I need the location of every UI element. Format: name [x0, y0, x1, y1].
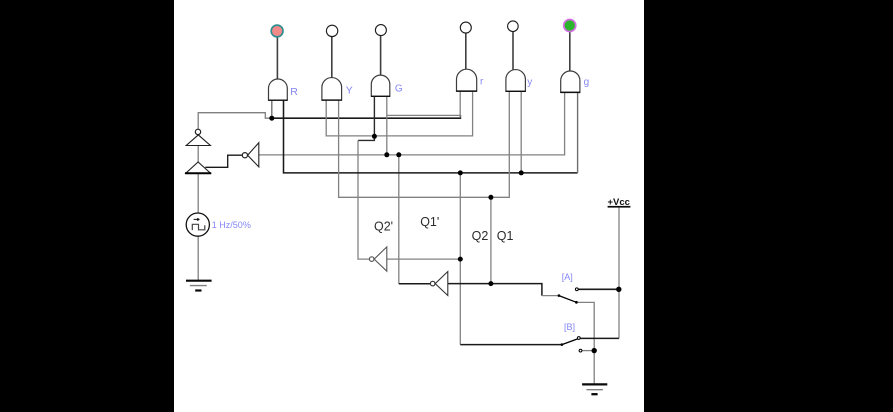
svg-text:Q1': Q1': [420, 215, 439, 229]
wire: gate r left input pin: [459, 91, 461, 117]
wire: gate G right pin cross link: [387, 114, 460, 116]
svg-text:Q2': Q2': [374, 219, 393, 233]
wire: net from gate Y left pin to gate r right pin: [326, 91, 472, 136]
AND gate R: [268, 79, 287, 100]
wire: LED R stem: [276, 37, 278, 79]
svg-text:Q2: Q2: [472, 229, 489, 243]
svg-text:Q1: Q1: [497, 229, 514, 243]
node: gate G right pin junction: [384, 152, 389, 157]
LED D5 white: [508, 21, 519, 32]
wire: gate y right input pin: [520, 91, 522, 173]
wire: gate G left input pin with step to Q2' column: [358, 96, 374, 140]
wire: buffer chain link: [197, 146, 199, 162]
wire: black bus net from gate R right pin to gate g right pin: [284, 100, 578, 173]
wire: column Q1' to switch A pole feed: [459, 173, 461, 345]
wire: column Q1 to inverter U5 input: [490, 197, 492, 283]
wire: LED Y stem: [331, 37, 333, 78]
switch A lever and contacts: [558, 288, 579, 304]
wire: inverter U3 output to buffer U2: [205, 155, 242, 167]
node: +Vcc rail junction: [616, 287, 621, 292]
node: inverter U5 input junction: [488, 281, 493, 286]
node: switch B output junction: [592, 348, 597, 353]
node: Q1' column top junction: [458, 170, 463, 175]
wire: net from inverter U3 input to gate g left pin: [259, 92, 565, 155]
AND gate y: [506, 70, 526, 92]
svg-text:Y: Y: [346, 85, 353, 97]
node: Q2' column junction: [396, 152, 401, 157]
wire: clock V1 to buffer U2: [197, 173, 199, 213]
wire: clock V1 to ground: [197, 236, 199, 280]
wire: LED g stem: [569, 32, 571, 71]
wire: inverter U1 output to AND-gate bus: [198, 113, 270, 130]
AND gate G: [371, 75, 390, 96]
wire: switch B lower throw stub: [581, 350, 594, 352]
wire: LED r stem: [465, 33, 467, 69]
LED D3 white: [375, 25, 386, 36]
buffer U1 with bubble (points up): [186, 129, 210, 145]
svg-text:1 Hz/50%: 1 Hz/50%: [212, 220, 251, 230]
LED D4 white: [460, 22, 471, 33]
LED D1 red: [271, 25, 283, 37]
wire: LED y stem: [512, 31, 514, 69]
inverter U3 (points left): [242, 143, 259, 167]
svg-text:g: g: [584, 77, 590, 88]
node: gate R left pin junction: [269, 116, 274, 121]
LED D2 white: [326, 25, 337, 36]
wire: black bus net CLK to gates R and r: [271, 115, 461, 118]
wire: net from gate Y right pin to gate y left pin: [339, 91, 510, 197]
LED D6 green: [564, 20, 576, 32]
wire: switch B pole feed: [460, 344, 562, 346]
clock source V1: [186, 213, 209, 236]
switch B lever and contacts: [561, 337, 582, 352]
wire: inverter U4 output column Q2': [358, 140, 370, 259]
wire: gate G right input pin: [386, 96, 388, 155]
node: gate G left pin junction: [372, 134, 377, 139]
inverter U4 (points left): [369, 247, 386, 271]
svg-text:[A]: [A]: [562, 272, 573, 282]
wire: switch A pole stub: [542, 295, 559, 297]
wire: switch A throw contact to +Vcc rail: [578, 288, 619, 290]
wire: gate R left input pin: [271, 100, 273, 117]
wire: inverter U5 input to switch A pole: [448, 284, 542, 296]
inverter U5 (points left): [430, 272, 447, 296]
buffer U2 (points up): [185, 162, 211, 173]
node: inverter U4 input junction: [458, 257, 463, 262]
power symbol +Vcc: [608, 197, 631, 208]
node: gate y right pin junction: [519, 170, 524, 175]
wire: inverter U5 output horizontal: [399, 283, 431, 285]
node: Q1 column top junction: [488, 195, 493, 200]
AND gate g: [560, 71, 580, 92]
wire: gate g right input pin: [577, 92, 579, 173]
wire: inverter U4 input: [387, 258, 460, 260]
svg-text:R: R: [290, 86, 298, 98]
wire: switch A output to switch B lower throw: [577, 302, 595, 350]
wire: ground feed at switch B: [593, 351, 595, 385]
ground GND1: [186, 281, 212, 291]
ground GND2: [582, 384, 607, 394]
svg-text:y: y: [527, 77, 532, 88]
wire: LED G stem: [380, 36, 382, 75]
wire: +Vcc rail vertical: [618, 207, 620, 338]
svg-text:[B]: [B]: [564, 322, 575, 332]
wire: +Vcc rail corner to switch B upper throw: [580, 337, 619, 339]
AND gate r: [456, 69, 477, 91]
wire: column from node to inverter U5 output: [398, 155, 400, 284]
svg-text:G: G: [395, 84, 403, 95]
AND gate Y: [322, 78, 342, 101]
